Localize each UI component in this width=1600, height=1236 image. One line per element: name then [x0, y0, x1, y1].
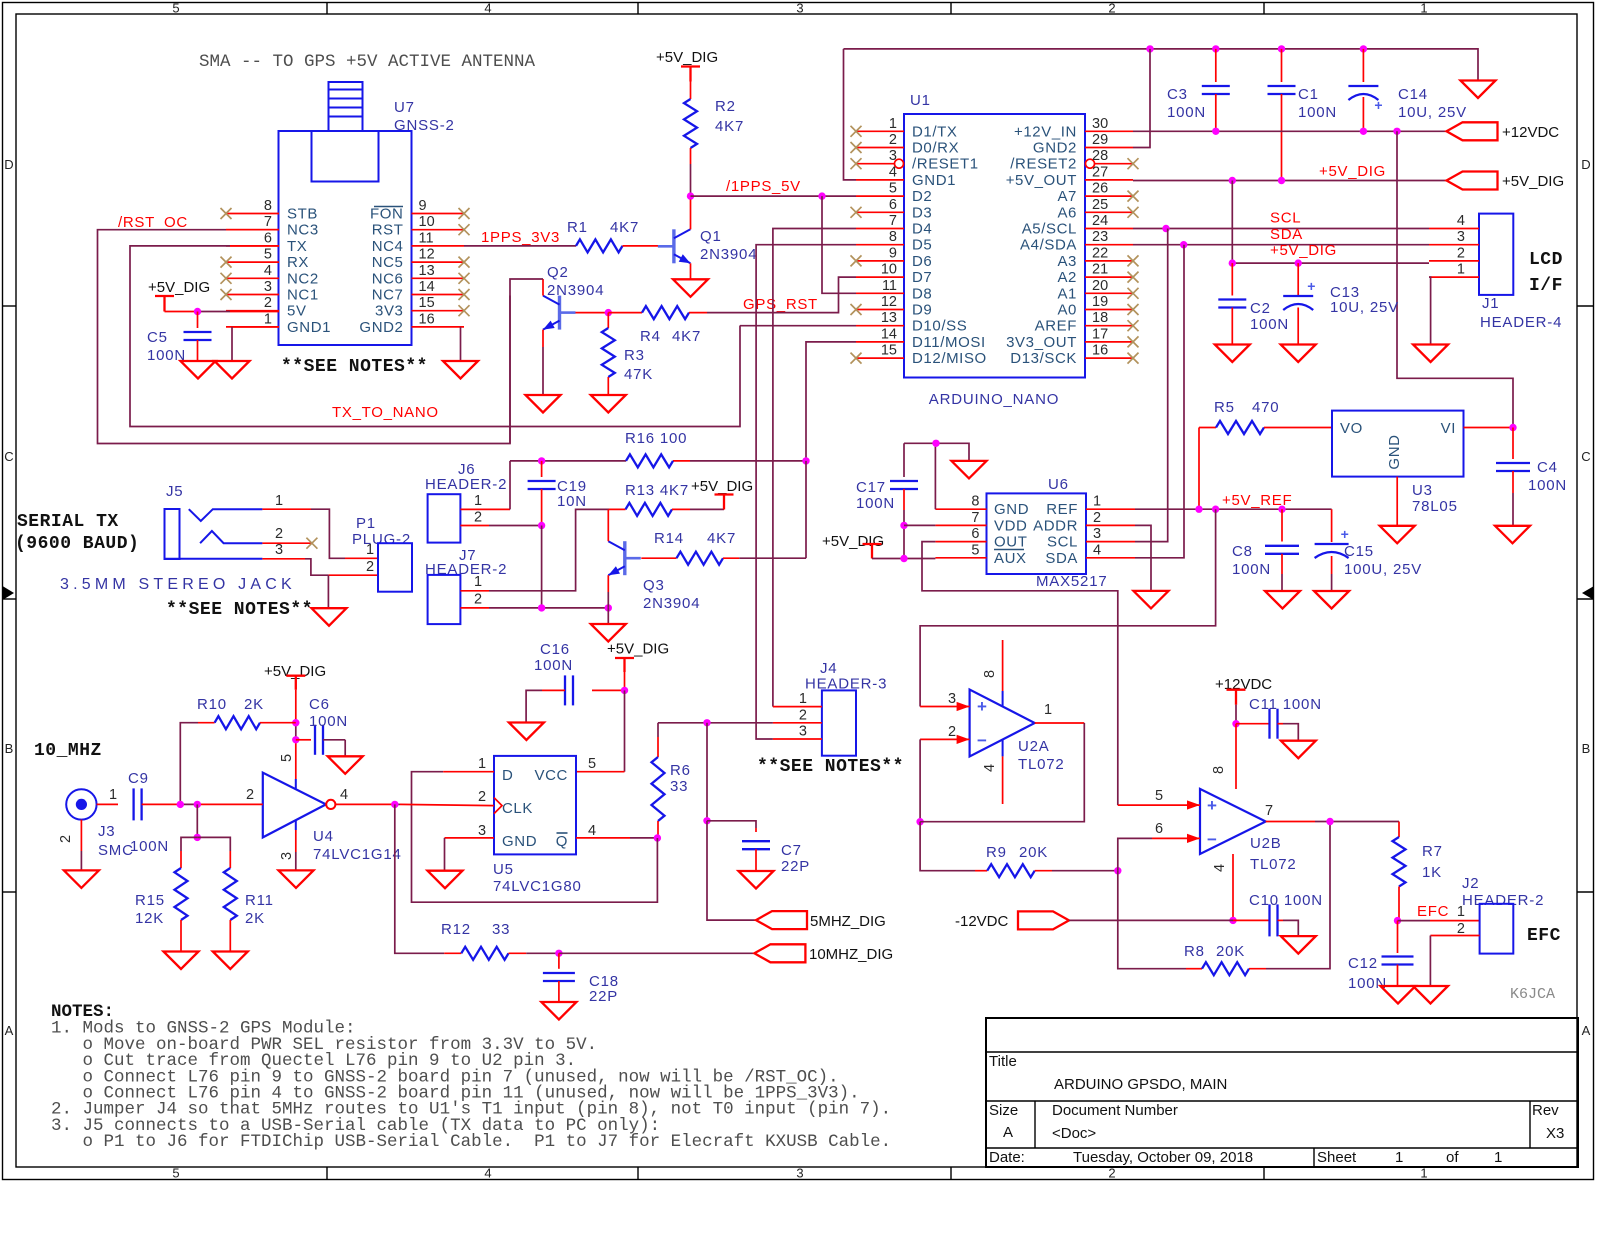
junction +12V C3	[1212, 128, 1219, 135]
svg-text:Date:: Date:	[989, 1149, 1025, 1166]
svg-text:33: 33	[492, 921, 510, 938]
svg-text:2: 2	[1093, 510, 1101, 526]
svg-text:Tuesday, October 09, 2018: Tuesday, October 09, 2018	[1073, 1149, 1253, 1166]
svg-text:A5/SCL: A5/SCL	[1022, 221, 1077, 238]
svg-text:20: 20	[1092, 278, 1108, 294]
svg-text:P1: P1	[356, 515, 376, 532]
junction U2B pin4 C10	[1229, 917, 1236, 924]
svg-text:C: C	[1581, 449, 1590, 464]
svg-text:15: 15	[419, 295, 435, 311]
svg-text:Document Number: Document Number	[1052, 1102, 1178, 1119]
svg-text:RST: RST	[372, 222, 404, 239]
wire VDD from C17 riser	[904, 524, 935, 526]
svg-text:D7: D7	[912, 269, 932, 286]
svg-text:15: 15	[881, 343, 897, 359]
svg-text:20K: 20K	[1019, 844, 1048, 861]
wire U2A pin3 input	[920, 706, 970, 708]
resistor R3 47K	[602, 313, 653, 395]
junction U5 Q R6 feedback	[654, 834, 661, 841]
transistor Q1 2N3904	[658, 200, 757, 280]
smc connector J3	[66, 789, 134, 859]
junction +5V_REF C8	[1278, 506, 1285, 513]
junction rail C3	[1212, 45, 1219, 52]
svg-text:1: 1	[1395, 1149, 1403, 1166]
svg-text:4K7: 4K7	[707, 530, 736, 547]
wire Q3 emitter node to ground	[607, 608, 609, 624]
header J7	[425, 547, 507, 624]
wire J2 pin2 to ground	[1430, 936, 1479, 987]
svg-text:R2: R2	[715, 98, 736, 115]
svg-text:30: 30	[1092, 116, 1108, 132]
opamp U2B TL072	[1155, 766, 1297, 873]
svg-text:2: 2	[264, 295, 272, 311]
svg-text:4: 4	[588, 823, 596, 839]
wire U3 VI to +12V node	[1464, 427, 1514, 429]
junction U2A feedback	[916, 818, 923, 825]
svg-text:U3: U3	[1412, 482, 1433, 499]
header J6	[425, 461, 510, 543]
ground at C15	[1314, 591, 1349, 609]
wire C9 to U4 input	[142, 803, 263, 805]
U7 left pin stubs	[226, 198, 331, 336]
resistor R1 4K7	[567, 219, 674, 252]
svg-text:22: 22	[1092, 245, 1108, 261]
junction +5V_REF branch	[1212, 506, 1219, 513]
svg-text:11: 11	[419, 230, 434, 246]
svg-text:U2A: U2A	[1018, 738, 1050, 755]
svg-text:1: 1	[1457, 904, 1465, 920]
resistor R13 4K7	[609, 482, 724, 516]
svg-text:SERIAL TX: SERIAL TX	[17, 512, 119, 532]
svg-text:2: 2	[948, 724, 956, 740]
svg-text:3: 3	[279, 852, 295, 860]
svg-text:19: 19	[1092, 294, 1108, 310]
capacitor C4 100N	[1496, 428, 1567, 526]
svg-text:20K: 20K	[1216, 943, 1245, 960]
svg-text:C: C	[4, 449, 13, 464]
svg-text:10: 10	[881, 262, 897, 278]
wire U2B pin5 from U6 OUT	[1118, 804, 1200, 806]
stereo jack J5	[165, 483, 263, 559]
svg-text:+: +	[977, 697, 987, 716]
svg-text:STB: STB	[287, 206, 318, 223]
svg-text:1: 1	[1044, 702, 1052, 718]
svg-text:HEADER-2: HEADER-2	[425, 476, 507, 493]
svg-text:C4: C4	[1537, 459, 1558, 476]
svg-text:R11: R11	[245, 892, 274, 909]
svg-text:4: 4	[1093, 542, 1101, 558]
svg-text:PLUG-2: PLUG-2	[352, 531, 411, 548]
svg-text:VO: VO	[1340, 420, 1363, 437]
svg-text:1: 1	[1420, 1, 1427, 16]
svg-text:SCL: SCL	[1047, 534, 1078, 551]
arduino nano U1 body	[904, 114, 1085, 378]
svg-text:2: 2	[474, 592, 482, 608]
wire U3 GND to ground	[1396, 477, 1398, 526]
capacitor C8 100N	[1232, 509, 1299, 591]
wire U6 SCL up to SCL net	[1135, 229, 1168, 542]
wire Q2 base to junction	[576, 312, 609, 314]
svg-text:Title: Title	[989, 1053, 1017, 1070]
wire U1 D10/SS to TX_TO_NANO	[740, 325, 856, 327]
svg-text:R15: R15	[135, 892, 165, 909]
svg-text:100N: 100N	[1528, 477, 1567, 494]
svg-text:GND2: GND2	[1033, 140, 1077, 157]
svg-text:5V: 5V	[287, 303, 307, 320]
junction R10 +5V	[292, 719, 299, 726]
junction rail GND2	[1146, 45, 1153, 52]
junction rail C14	[1360, 45, 1367, 52]
svg-text:2N3904: 2N3904	[643, 595, 700, 612]
junction +12V riser	[1393, 128, 1400, 135]
svg-text:1K: 1K	[1422, 864, 1442, 881]
wire /1PPS_5V tap to U1 D8	[822, 196, 856, 293]
svg-text:U2B: U2B	[1250, 835, 1282, 852]
svg-text:28: 28	[1092, 148, 1108, 164]
svg-text:4K7: 4K7	[610, 219, 639, 236]
wire J6 pin2 to C19 bottom	[489, 525, 542, 527]
svg-text:2: 2	[889, 132, 897, 148]
svg-text:Sheet: Sheet	[1317, 1149, 1357, 1166]
svg-text:ADDR: ADDR	[1033, 517, 1078, 534]
wire 5MHZ drop	[706, 723, 708, 821]
svg-text:VDD: VDD	[994, 517, 1027, 534]
svg-text:2: 2	[366, 559, 374, 575]
svg-text:4: 4	[1212, 864, 1228, 872]
svg-text:**SEE NOTES**: **SEE NOTES**	[281, 357, 428, 377]
resistor R15 12K	[135, 837, 197, 951]
svg-text:7: 7	[264, 214, 272, 230]
svg-text:6: 6	[264, 230, 272, 246]
ground at U6 ADDR	[1134, 591, 1169, 609]
ground at C18	[541, 1002, 576, 1020]
inverter U4 74LVC1G14	[246, 754, 402, 863]
svg-text:<Doc>: <Doc>	[1052, 1125, 1096, 1142]
resistor R2 4K7	[684, 82, 744, 197]
svg-text:A4/SDA: A4/SDA	[1020, 237, 1077, 254]
svg-text:J3: J3	[98, 823, 115, 840]
svg-text:+: +	[1207, 796, 1217, 815]
ground at C13	[1281, 345, 1316, 363]
svg-text:C9: C9	[128, 770, 149, 787]
wire U1 GND1 to ground rail	[844, 49, 857, 180]
capacitor C6 100N	[296, 696, 348, 756]
gps module U7 body	[279, 131, 412, 345]
title block	[986, 1018, 1578, 1167]
wire U1 GND2 to rail	[1133, 49, 1150, 148]
wire U4 output node	[335, 787, 394, 804]
svg-text:5: 5	[1155, 788, 1163, 804]
svg-text:TL072: TL072	[1018, 756, 1065, 773]
wire 5MHZ to flag	[707, 821, 756, 920]
svg-text:Q2: Q2	[547, 264, 569, 281]
junction SDA tap	[1180, 241, 1187, 248]
svg-text:C15: C15	[1344, 543, 1374, 560]
svg-text:74LVC1G80: 74LVC1G80	[493, 878, 582, 895]
ground at C2	[1215, 345, 1250, 363]
svg-text:5: 5	[889, 181, 897, 197]
svg-text:Q3: Q3	[643, 577, 665, 594]
svg-text:1: 1	[1457, 262, 1465, 278]
svg-text:18: 18	[1092, 310, 1108, 326]
wire U6 OUT to U2B path	[922, 542, 1118, 806]
junction C19 top	[538, 457, 545, 464]
ground at Q2 emitter	[526, 395, 561, 413]
power flag +12VDC	[1447, 122, 1560, 141]
svg-text:R14: R14	[654, 530, 684, 547]
svg-text:of: of	[1446, 1149, 1459, 1166]
wire U2A pin2 input	[920, 739, 970, 821]
svg-text:D12/MISO: D12/MISO	[912, 350, 987, 367]
power flag +12VDC at C11	[1215, 676, 1272, 724]
svg-text:10U, 25V: 10U, 25V	[1398, 104, 1467, 121]
svg-text:D4: D4	[912, 221, 932, 238]
junction +5V_REF R5	[1195, 506, 1202, 513]
transistor Q2 2N3904	[543, 264, 604, 330]
svg-text:3V3: 3V3	[375, 303, 404, 320]
svg-text:HEADER-4: HEADER-4	[1480, 314, 1562, 331]
power flag +5V_DIG at U6	[822, 533, 935, 559]
svg-text:6: 6	[971, 526, 979, 542]
svg-text:9: 9	[889, 245, 897, 261]
svg-text:3: 3	[1457, 229, 1465, 245]
svg-text:24: 24	[1092, 213, 1108, 229]
junction J1 +5V C13	[1295, 259, 1302, 266]
wire C7 jog	[707, 821, 756, 832]
svg-text:21: 21	[1092, 262, 1108, 278]
capacitor C17 100N	[856, 443, 918, 558]
svg-text:A1: A1	[1057, 285, 1077, 302]
ground at R15	[164, 952, 199, 970]
lcd header J1	[1429, 213, 1562, 331]
svg-text:C6: C6	[309, 696, 330, 713]
svg-text:J5: J5	[166, 483, 183, 500]
wire +5V_DIG from U1 pin27	[1133, 180, 1447, 182]
svg-text:+5V_DIG: +5V_DIG	[1319, 163, 1386, 180]
alignment arrow left edge	[3, 586, 15, 600]
wire +12V from U1 pin30	[1133, 130, 1447, 132]
svg-text:C11 100N: C11 100N	[1249, 696, 1322, 713]
junction U6 gnd C17	[932, 440, 939, 447]
resistor R16 100	[625, 430, 687, 467]
junction J7.2 C19	[538, 604, 545, 611]
wire +5V_DIG to U7 pin 5V	[165, 311, 280, 313]
svg-text:MAX5217: MAX5217	[1036, 573, 1107, 590]
svg-text:4: 4	[1457, 213, 1465, 229]
svg-text:+: +	[1374, 97, 1382, 113]
junction C16 +5V	[621, 687, 628, 694]
ground at J1	[1413, 345, 1448, 363]
svg-text:o P1 to J6 for FTDIChip USB-Se: o P1 to J6 for FTDIChip USB-Serial Cable…	[51, 1132, 891, 1152]
wire J1 pin1 to ground	[1429, 277, 1431, 344]
wire U2A pin8 power stub	[1002, 640, 1004, 706]
dac U6 body	[987, 493, 1087, 574]
svg-text:7: 7	[971, 510, 979, 526]
svg-text:I/F: I/F	[1529, 276, 1563, 296]
svg-text:J2: J2	[1462, 875, 1479, 892]
wire U2B pin6 from R9/R8 node	[1118, 838, 1200, 870]
U7 SMA connector symbol	[312, 82, 379, 182]
junction C5 tap	[194, 308, 201, 315]
ground at top rail right	[1461, 81, 1496, 99]
power flag +5V_DIG at C16	[607, 641, 669, 691]
svg-text:100N: 100N	[1298, 104, 1337, 121]
svg-text:+5V_DIG: +5V_DIG	[822, 533, 884, 550]
svg-text:C12: C12	[1348, 955, 1378, 972]
svg-text:D9: D9	[912, 302, 932, 319]
svg-text:+5V_DIG: +5V_DIG	[148, 279, 210, 296]
svg-text:3.5MM STEREO JACK: 3.5MM STEREO JACK	[60, 576, 296, 593]
svg-text:100N: 100N	[534, 657, 573, 674]
ground at U7 GND2	[443, 361, 478, 379]
wire U4 GND pin3 to ground	[295, 830, 297, 870]
resistor R12 33	[441, 921, 559, 960]
svg-text:D: D	[502, 767, 513, 784]
wire U4 output to U5 CLK	[395, 804, 494, 805]
junction J1 +5V C2	[1229, 259, 1236, 266]
U1 left unconnected x marks	[851, 126, 862, 364]
wire SCL U1 A5 to J1 pin4	[1133, 228, 1429, 230]
wire U2A pin4 power stub	[1002, 740, 1004, 804]
svg-text:GND2: GND2	[359, 319, 403, 336]
junction /1PPS_5V at Q1 collector	[687, 192, 694, 199]
svg-text:C1: C1	[1298, 86, 1319, 103]
svg-text:D1/TX: D1/TX	[912, 123, 958, 140]
wire U2B pin8 from +12V	[1235, 724, 1237, 789]
svg-text:CLK: CLK	[502, 800, 533, 817]
wire Q2 emitter to ground	[542, 330, 544, 395]
capacitor C1 100N	[1268, 49, 1338, 181]
zone labels top	[172, 1, 1427, 16]
J5 pin2 stub with x	[262, 526, 317, 549]
svg-text:4: 4	[484, 1166, 491, 1181]
capacitor C11 100N	[1236, 696, 1322, 741]
plug P1	[352, 515, 412, 592]
ground at U6 GND	[952, 461, 987, 479]
resistor R14 4K7	[641, 530, 806, 565]
svg-text:3: 3	[275, 542, 283, 558]
svg-text:3: 3	[478, 823, 486, 839]
capacitor C7 22P	[742, 841, 810, 875]
svg-text:A: A	[5, 1023, 14, 1038]
svg-text:GND: GND	[994, 501, 1029, 518]
junction U3 VI C4	[1509, 424, 1516, 431]
svg-text:R9: R9	[986, 844, 1007, 861]
svg-text:/1PPS_5V: /1PPS_5V	[726, 178, 801, 195]
svg-text:R1: R1	[567, 219, 588, 236]
U6 left pins	[935, 494, 1029, 567]
ground at U4	[279, 870, 314, 888]
wire U5 GND to ground	[445, 838, 495, 871]
svg-text:C16: C16	[540, 641, 570, 658]
svg-text:29: 29	[1092, 132, 1108, 148]
junction +12V C14	[1360, 128, 1367, 135]
U6 GND rail and ground	[904, 443, 969, 509]
svg-text:2K: 2K	[245, 910, 265, 927]
ground at C6	[328, 756, 363, 774]
svg-text:33: 33	[670, 778, 688, 795]
capacitor C10 100N	[1249, 892, 1323, 936]
svg-text:NC1: NC1	[287, 287, 319, 304]
svg-text:+5V_DIG: +5V_DIG	[607, 641, 669, 658]
junction R16 R14 D11	[802, 457, 809, 464]
output flag 5MHZ_DIG	[756, 911, 886, 930]
wire -12VDC to C10	[1069, 919, 1270, 921]
wire +5V_DIG to J1 pin2	[1232, 181, 1429, 264]
wire J3 pin2 to ground	[58, 820, 81, 871]
wire J7 pin1 up to R13	[489, 509, 609, 590]
svg-text:100N: 100N	[1167, 104, 1206, 121]
svg-text:13: 13	[419, 263, 435, 279]
svg-text:LCD: LCD	[1529, 250, 1563, 270]
svg-text:+: +	[1307, 278, 1315, 294]
svg-text:C8: C8	[1232, 543, 1253, 560]
power flag +5V_DIG at R2	[656, 49, 718, 82]
svg-text:3: 3	[796, 1, 803, 16]
svg-text:SCL: SCL	[1270, 210, 1301, 227]
input flag -12VDC	[955, 911, 1069, 930]
svg-text:100N: 100N	[130, 838, 169, 855]
svg-text:4: 4	[340, 787, 348, 803]
svg-text:47K: 47K	[624, 366, 653, 383]
svg-text:+5V_DIG: +5V_DIG	[1270, 242, 1337, 259]
ground at J5/P1	[312, 608, 347, 626]
svg-text:22P: 22P	[589, 988, 618, 1005]
junction U2B out R8	[1326, 818, 1333, 825]
svg-text:8: 8	[1211, 766, 1227, 774]
svg-text:A0: A0	[1057, 302, 1077, 319]
svg-text:100N: 100N	[1232, 561, 1271, 578]
svg-text:NC4: NC4	[372, 238, 404, 255]
svg-text:23: 23	[1092, 229, 1108, 245]
svg-text:R4: R4	[640, 328, 661, 345]
svg-text:B: B	[5, 741, 14, 756]
U7 unconnected pin x marks	[221, 208, 470, 316]
svg-text:EFC: EFC	[1527, 926, 1561, 946]
U7 right pin stubs	[359, 198, 464, 336]
capacitor C3 100N	[1167, 49, 1230, 131]
svg-text:+12V_IN: +12V_IN	[1014, 123, 1077, 140]
svg-text:GND1: GND1	[287, 319, 331, 336]
svg-text:4: 4	[264, 263, 272, 279]
wire U2A node to R9	[920, 822, 975, 871]
svg-text:**SEE NOTES**: **SEE NOTES**	[166, 600, 313, 620]
svg-text:4: 4	[484, 1, 491, 16]
svg-text:74LVC1G14: 74LVC1G14	[313, 846, 402, 863]
wire U2B pin4 to -12V node	[1232, 854, 1234, 920]
ground at C10	[1281, 936, 1316, 954]
svg-text:D2: D2	[912, 188, 932, 205]
svg-text:5MHZ_DIG: 5MHZ_DIG	[810, 913, 886, 930]
svg-text:1: 1	[366, 542, 374, 558]
svg-text:27: 27	[1092, 164, 1108, 180]
svg-text:D13/SCK: D13/SCK	[1010, 350, 1077, 367]
svg-text:/RESET2: /RESET2	[1010, 156, 1077, 173]
svg-text:C10 100N: C10 100N	[1249, 892, 1323, 909]
svg-text:A6: A6	[1057, 204, 1077, 221]
svg-text:7: 7	[889, 213, 897, 229]
ground rail top	[844, 49, 1479, 81]
svg-text:16: 16	[1092, 343, 1108, 359]
junction J4.2 5MHZ tap	[703, 719, 710, 726]
svg-text:NC6: NC6	[372, 270, 404, 287]
wire U1 D11/MOSI down to R16 node	[806, 342, 856, 461]
svg-text:10MHZ_DIG: 10MHZ_DIG	[809, 946, 893, 963]
ground at U7 GND1	[215, 361, 250, 379]
svg-text:1: 1	[474, 574, 482, 590]
svg-text:/RESET1: /RESET1	[912, 156, 979, 173]
svg-text:2: 2	[275, 526, 283, 542]
